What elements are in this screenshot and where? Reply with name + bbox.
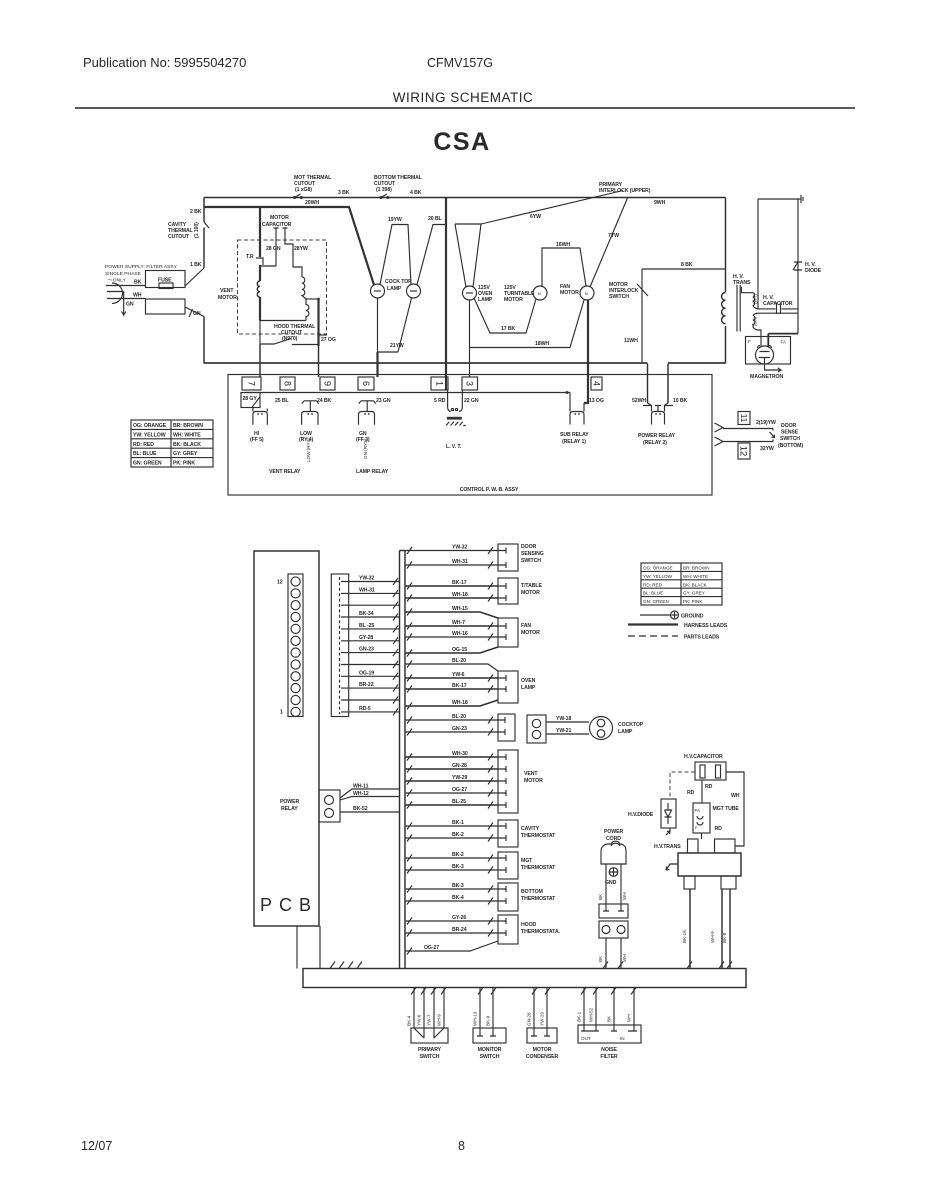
wire WH-18 oven <box>405 700 498 706</box>
svg-text:(FF 5): (FF 5) <box>250 437 264 443</box>
hatch marks bus top <box>330 962 732 969</box>
wire WH-15 <box>405 612 498 618</box>
strip internal dashed <box>339 577 341 714</box>
svg-text:GN: GN <box>126 302 134 308</box>
connector 3 <box>462 377 478 390</box>
color code table 1 <box>131 420 213 467</box>
svg-text:3 BK: 3 BK <box>338 190 350 196</box>
svg-text:WH-13: WH-13 <box>473 1011 478 1026</box>
wire to noise filter BK <box>605 938 607 969</box>
switch mark conn7 <box>252 397 260 407</box>
svg-text:PARTS LEADS: PARTS LEADS <box>684 635 720 641</box>
svg-text:VENT: VENT <box>524 771 538 777</box>
svg-text:DOOR: DOOR <box>781 423 797 429</box>
svg-text:3: 3 <box>465 381 475 386</box>
wire 52WH drop <box>647 364 649 404</box>
wire oven lamp drop to connector 3 <box>469 348 471 378</box>
wire: left edge vertical <box>203 198 205 364</box>
transformer secondary GN <box>753 313 758 330</box>
svg-text:BK: BK <box>607 1015 612 1022</box>
svg-text:RD: RED: RD: RED <box>133 442 154 448</box>
wire hood switch drop to connector 7 <box>259 344 261 377</box>
svg-text:1: 1 <box>280 710 283 716</box>
svg-text:PCB: PCB <box>260 895 318 915</box>
svg-text:BK: BLACK: BK: BLACK <box>173 442 201 448</box>
wire noise filter BK <box>613 988 615 1026</box>
wire monitor sw WH-13 <box>479 988 481 1029</box>
wire primary sw BK-4 <box>413 988 415 1029</box>
vent motor connector <box>498 750 518 813</box>
wire BL-25 pcb <box>349 628 400 630</box>
svg-text:RELAY: RELAY <box>281 806 298 812</box>
svg-text:BK-4: BK-4 <box>407 1015 412 1026</box>
wire OG-15 fan <box>405 647 498 653</box>
legend harness leads <box>628 623 678 625</box>
trans top terminals <box>688 839 699 853</box>
svg-text:BK: BK <box>598 955 603 962</box>
wire BK-3 mgt <box>405 869 498 871</box>
wire 27 OG harness <box>317 299 319 346</box>
svg-text:BK-17: BK-17 <box>452 580 467 586</box>
svg-text:18WH: 18WH <box>535 341 549 347</box>
svg-text:VENT RELAY: VENT RELAY <box>269 469 301 475</box>
magnetron box <box>746 337 791 365</box>
svg-text:POWER SUPPLY: FILTER ASSY: POWER SUPPLY: FILTER ASSY <box>105 264 178 270</box>
legend ground <box>640 614 670 616</box>
svg-text:WH-12: WH-12 <box>353 791 369 797</box>
switch: MOT thermal cutout on rail <box>293 196 296 199</box>
wire: right edge of main box <box>725 198 727 364</box>
svg-text:FA: FA <box>695 808 702 813</box>
oven lamp connector <box>498 671 518 703</box>
wire GN-23 cocktop <box>405 731 498 733</box>
parts lead dashed to diode <box>670 772 695 799</box>
wire BL-20 <box>405 664 498 671</box>
wire YW-29 vent <box>405 780 498 782</box>
hatch marks bus bottom <box>411 988 636 995</box>
transformer secondary WH <box>741 287 758 309</box>
svg-text:4: 4 <box>591 381 601 386</box>
connector 12 <box>738 443 750 459</box>
svg-text:SWITCH: SWITCH <box>780 436 800 442</box>
svg-text:F: F <box>748 339 751 344</box>
wire cap left lead RD <box>701 780 703 803</box>
wire OG-27 vent <box>405 792 498 794</box>
svg-text:SWITCH: SWITCH <box>420 1054 440 1060</box>
svg-text:7: 7 <box>246 381 256 386</box>
svg-text:POWER: POWER <box>604 829 623 835</box>
door sense chevron 2 <box>715 437 724 446</box>
svg-text:BK-16: BK-16 <box>682 930 687 943</box>
svg-text:LAMP: LAMP <box>521 685 536 691</box>
svg-text:CUTOUT: CUTOUT <box>168 234 190 240</box>
wire internal bus <box>245 392 567 394</box>
svg-text:MGT: MGT <box>521 858 533 864</box>
wire to noise filter WH <box>620 938 622 969</box>
svg-text:RD: RD <box>705 784 713 790</box>
svg-text:GND: GND <box>605 880 617 886</box>
svg-text:THERMOSTAT: THERMOSTAT <box>521 896 556 902</box>
svg-text:OG-15: OG-15 <box>452 647 467 653</box>
svg-text:THERMOSTAT: THERMOSTAT <box>521 865 556 871</box>
motor: 125V turntable motor <box>533 286 547 300</box>
color code table 2 <box>641 563 722 605</box>
svg-text:OG: ORANGE: OG: ORANGE <box>133 423 167 429</box>
svg-text:THERMOSTATA.: THERMOSTATA. <box>521 929 561 935</box>
label 28 GY boxed <box>241 393 260 408</box>
svg-text:WH: WH <box>627 1014 632 1022</box>
wire noise filter BK-1 <box>583 988 585 1026</box>
wire tube to trans RD <box>701 833 703 839</box>
motor: fan motor <box>580 286 594 300</box>
svg-text:SENSING: SENSING <box>521 551 544 557</box>
svg-text:BK-52: BK-52 <box>353 806 368 812</box>
cocktop lamp symbol <box>590 717 613 740</box>
HV capacitor box <box>695 762 726 780</box>
wire BK to fuse <box>106 285 146 287</box>
svg-text:PRIMARY: PRIMARY <box>418 1047 442 1053</box>
turntable motor connector <box>498 578 518 604</box>
svg-text:4 BK: 4 BK <box>410 190 422 196</box>
svg-text:RD-5: RD-5 <box>359 706 371 712</box>
svg-text:L. V. T.: L. V. T. <box>446 444 462 450</box>
svg-text:22 GN: 22 GN <box>464 398 479 404</box>
wire 6YW to interlock <box>481 191 623 225</box>
wire GN-23 pcb <box>349 652 400 654</box>
power cord symbol <box>601 841 626 864</box>
HV terminal <box>758 195 803 203</box>
header rule <box>75 107 855 109</box>
svg-text:BK: BLACK: BK: BLACK <box>683 582 708 587</box>
svg-text:(BOTTOM): (BOTTOM) <box>778 443 803 449</box>
svg-text:(N970): (N970) <box>282 336 298 342</box>
svg-text:YW-6: YW-6 <box>417 1014 422 1026</box>
svg-text:11WH: 11WH <box>624 338 638 344</box>
hood thermal cutout switch <box>260 321 319 345</box>
svg-text:CAPACITOR: CAPACITOR <box>262 222 292 228</box>
wire GY-28 pcb <box>349 640 400 642</box>
wire 7YW interlock to fan <box>590 198 628 288</box>
svg-text:VENT: VENT <box>220 288 234 294</box>
svg-text:BL-20: BL-20 <box>452 658 466 664</box>
svg-text:BR: BROWN: BR: BROWN <box>173 423 203 429</box>
svg-text:BOTTOM: BOTTOM <box>521 889 543 895</box>
plug ground pin <box>107 292 126 316</box>
mgt thermostat connector <box>498 852 518 879</box>
wire BK-4 bottom <box>405 900 498 902</box>
wire BK-17 ttable <box>405 585 498 587</box>
svg-text:TRANS: TRANS <box>733 280 751 286</box>
magnetron heater lead F <box>758 330 761 346</box>
svg-text:YW-18: YW-18 <box>556 716 571 722</box>
svg-text:GN-23: GN-23 <box>452 726 467 732</box>
wire BK-3 bottom <box>405 888 498 890</box>
svg-text:YW-32: YW-32 <box>359 576 374 582</box>
wire 19YW between lamps <box>380 225 411 285</box>
svg-text:OG: ORANGE: OG: ORANGE <box>643 566 673 571</box>
transformer T1 primary <box>722 293 726 324</box>
svg-text:H.V.CAPACITOR: H.V.CAPACITOR <box>684 754 723 760</box>
svg-text:BK-9: BK-9 <box>486 1015 491 1026</box>
wire 27 OG drop to connector 9 <box>318 346 320 377</box>
relay LOW coil <box>302 412 318 425</box>
svg-text:WH-15: WH-15 <box>452 606 468 612</box>
wire YW-18 <box>546 721 589 723</box>
svg-text:THERMOSTAT: THERMOSTAT <box>521 833 556 839</box>
bottom harness bus bar <box>303 969 746 988</box>
wire primary sw YW-6 <box>423 988 425 1029</box>
svg-text:BL-25: BL-25 <box>452 799 466 805</box>
wire pcb unlabeled <box>349 699 400 701</box>
wire PCB drop 2 <box>319 926 321 969</box>
primary switch box <box>411 1028 448 1043</box>
svg-text:1: 1 <box>434 381 444 386</box>
svg-text:MONITOR: MONITOR <box>478 1047 502 1053</box>
svg-text:M: M <box>538 292 541 296</box>
wire: bottom rail left <box>204 362 648 364</box>
wire condenser GN-28 <box>533 988 535 1029</box>
wire lamp drop to connector 6 <box>376 352 378 377</box>
svg-text:MOTOR: MOTOR <box>524 778 543 784</box>
wire BK-2 cavity <box>405 837 498 839</box>
svg-text:11: 11 <box>739 414 748 423</box>
wire from door sense switch <box>723 441 773 443</box>
svg-text:SWITCH: SWITCH <box>480 1054 500 1060</box>
wire 10 BK drop <box>667 364 669 404</box>
svg-text:28 GN: 28 GN <box>266 246 281 252</box>
lamp: cocktop lamp 1 <box>371 284 385 298</box>
svg-text:YW-6: YW-6 <box>452 672 465 678</box>
wire BK-8 down <box>729 889 731 969</box>
wire noise filter WH-52 <box>595 988 597 1026</box>
svg-text:H.V.TRANS: H.V.TRANS <box>654 844 681 850</box>
motor interlock switch box <box>642 269 726 363</box>
wire HV left vertical <box>757 199 759 309</box>
svg-text:GY-28: GY-28 <box>359 635 373 641</box>
svg-text:23 GN: 23 GN <box>376 398 391 404</box>
lamp: cocktop lamp 2 <box>407 284 421 298</box>
svg-text:BK-8: BK-8 <box>722 932 727 943</box>
wire WH-9 down <box>721 889 723 969</box>
vent motor winding lower right <box>306 299 309 321</box>
svg-text:WIRING SCHEMATIC: WIRING SCHEMATIC <box>393 90 534 105</box>
svg-text:WH: WH <box>622 892 627 900</box>
svg-text:NOISE: NOISE <box>601 1047 617 1053</box>
svg-text:GY-26: GY-26 <box>452 915 466 921</box>
filter box <box>146 299 186 314</box>
svg-text:BK-34: BK-34 <box>359 611 374 617</box>
relay GN coil <box>359 412 375 425</box>
wire noise filter WH <box>633 988 635 1026</box>
svg-text:12: 12 <box>738 446 749 457</box>
wire YW-21 <box>546 733 589 735</box>
svg-text:WH: WH <box>133 293 142 299</box>
power relay on PCB <box>319 790 340 822</box>
svg-text:PK: PINK: PK: PINK <box>683 599 703 604</box>
wire to door sense switch <box>723 428 773 430</box>
svg-text:GN (RY3): GN (RY3) <box>363 438 368 459</box>
plug symbol <box>112 283 123 303</box>
wire YW-6 oven <box>405 677 498 679</box>
wire WH-7 fan <box>405 625 498 627</box>
svg-text:Publication No: 5995504270: Publication No: 5995504270 <box>83 55 246 70</box>
wire primary sw YW-7 <box>433 988 435 1029</box>
svg-text:SUB RELAY: SUB RELAY <box>560 432 589 438</box>
wire 21YW lamp drops <box>378 298 412 352</box>
wire fuse to left rail <box>185 268 204 286</box>
motor condenser box <box>527 1028 557 1043</box>
svg-text:YW-29: YW-29 <box>540 1012 545 1026</box>
legend parts leads <box>628 635 678 637</box>
svg-text:BL: BLUE: BL: BLUE <box>133 451 157 457</box>
svg-text:(1 398): (1 398) <box>376 187 392 193</box>
svg-text:GN: GREEN: GN: GREEN <box>133 461 162 467</box>
connector 8 <box>280 377 295 390</box>
svg-text:WH-9: WH-9 <box>710 931 715 943</box>
wire pcb unlabeled <box>349 604 400 606</box>
door sensing switch connector <box>498 544 518 571</box>
connector strip 2 <box>331 574 348 717</box>
wire winding to bottom <box>259 297 261 321</box>
svg-text:LAMP: LAMP <box>387 286 402 292</box>
svg-text:2 BK: 2 BK <box>190 209 202 215</box>
svg-text:BL -25: BL -25 <box>359 623 374 629</box>
svg-text:LOW (RY4): LOW (RY4) <box>306 438 311 462</box>
svg-text:MOTOR: MOTOR <box>218 295 237 301</box>
parts lead dashed diode to trans <box>666 828 670 835</box>
wire OG-19 pcb <box>349 675 400 677</box>
svg-text:CSA: CSA <box>433 128 490 156</box>
svg-text:WH-18: WH-18 <box>452 700 468 706</box>
wire PCB drop 1 <box>296 926 298 969</box>
node winding junction <box>306 298 319 300</box>
bottom thermostat connector <box>498 883 518 911</box>
svg-text:20 BL: 20 BL <box>428 216 443 222</box>
svg-text:MOTOR: MOTOR <box>270 215 289 221</box>
svg-text:FA: FA <box>781 340 786 345</box>
connector 1 <box>431 377 448 390</box>
wire cord BK <box>605 864 607 904</box>
svg-text:27 OG: 27 OG <box>321 337 336 343</box>
svg-text:6YW: 6YW <box>530 214 541 220</box>
svg-text:10 BK: 10 BK <box>673 398 688 404</box>
trans bottom terminals <box>684 876 695 889</box>
fuse box F1 <box>146 271 186 288</box>
wire BR-24 hood <box>405 932 498 934</box>
wire OG-27 hood <box>405 941 498 951</box>
svg-text:SENSE: SENSE <box>781 430 799 436</box>
svg-text:WH: WH <box>622 954 627 962</box>
wire BR-22 pcb <box>349 687 400 689</box>
wire secondary to cap lower line <box>758 312 798 314</box>
wire WH-30 vent <box>405 756 498 758</box>
svg-text:BK-3: BK-3 <box>452 883 464 889</box>
pin circles <box>291 577 300 717</box>
svg-text:BK-1: BK-1 <box>577 1011 582 1022</box>
svg-text:8: 8 <box>282 381 292 386</box>
wire RD-5 pcb <box>349 711 400 713</box>
vent motor dashed enclosure <box>238 240 327 334</box>
svg-text:MOTOR: MOTOR <box>521 630 540 636</box>
vent motor winding upper right <box>302 277 306 299</box>
svg-text:GROUND: GROUND <box>681 614 704 620</box>
wire capacitor GN lead <box>260 237 276 266</box>
wire YW-32 pcb <box>349 581 400 583</box>
svg-text:WH-11: WH-11 <box>353 784 369 790</box>
svg-text:RD: RD <box>687 790 695 796</box>
door sense chevron 1 <box>715 423 724 432</box>
svg-text:19YW: 19YW <box>388 217 402 223</box>
relay HI coil <box>253 408 267 425</box>
svg-text:YW: YELLOW: YW: YELLOW <box>643 574 673 579</box>
cocktop harness connector <box>498 714 515 741</box>
svg-text:12: 12 <box>277 580 283 586</box>
wire WH-31 pcb <box>349 592 400 594</box>
svg-text:MAGNETRON: MAGNETRON <box>750 374 783 380</box>
svg-text:20WH: 20WH <box>305 200 319 206</box>
hatch marks on bus left <box>393 578 398 715</box>
wire HV right vertical <box>797 199 799 334</box>
svg-text:H.V.DIODE: H.V.DIODE <box>628 812 654 818</box>
magnetron filament <box>758 346 772 349</box>
wire BK-17 oven <box>405 688 498 690</box>
svg-text:1 BK: 1 BK <box>190 262 202 268</box>
svg-text:LAMP: LAMP <box>618 729 633 735</box>
svg-text:WH-16: WH-16 <box>452 631 468 637</box>
MGT tube box <box>693 803 710 833</box>
wire filter to left rail GN <box>185 307 204 317</box>
svg-text:25 BL: 25 BL <box>275 398 290 404</box>
svg-text:YW: YELLOW: YW: YELLOW <box>133 432 166 438</box>
connector strip 12-pin <box>288 574 303 717</box>
svg-text:GN-23: GN-23 <box>359 647 374 653</box>
svg-text:T.R: T.R <box>246 254 254 260</box>
cocktop pin connector <box>527 715 546 743</box>
svg-text:OG-27: OG-27 <box>452 787 467 793</box>
svg-text:*~ONLY: *~ONLY <box>108 278 126 284</box>
wire 18WH oven lamp to fan <box>470 300 585 348</box>
svg-text:T/TABLE: T/TABLE <box>521 583 542 589</box>
svg-text:9WH: 9WH <box>654 200 666 206</box>
wire vent motor feed from 20WH <box>259 207 261 281</box>
svg-text:SINGLE PHASE: SINGLE PHASE <box>105 271 142 277</box>
svg-text:BK-4: BK-4 <box>452 895 464 901</box>
svg-text:FAN: FAN <box>521 623 531 629</box>
svg-text:6: 6 <box>361 381 371 386</box>
connector 9 <box>320 377 335 390</box>
svg-text:F: F <box>695 825 698 830</box>
svg-text:GN-28: GN-28 <box>452 763 467 769</box>
relay POWER coil <box>652 406 665 425</box>
svg-text:SWITCH: SWITCH <box>521 558 541 564</box>
control PWB assy box <box>228 375 712 496</box>
svg-text:BR: BROWN: BR: BROWN <box>683 566 710 571</box>
svg-text:FILTER: FILTER <box>600 1054 618 1060</box>
trans ground arrow <box>666 864 678 870</box>
svg-text:HOOD: HOOD <box>521 922 537 928</box>
svg-text:M: M <box>585 292 588 296</box>
svg-text:WH-52: WH-52 <box>589 1007 594 1022</box>
wire oven lamp V to 6YW <box>455 224 481 287</box>
magnetron tube V1 <box>756 346 774 364</box>
connector 4 <box>591 377 602 390</box>
wire bus to sub relay <box>566 391 569 394</box>
wire pcb unlabeled <box>349 664 400 666</box>
wire BK-34 pcb <box>349 616 400 618</box>
wire WH-18 ttable <box>405 597 498 599</box>
svg-text:BR-24: BR-24 <box>452 927 467 933</box>
svg-text:RD: RED: RD: RED <box>643 582 663 587</box>
